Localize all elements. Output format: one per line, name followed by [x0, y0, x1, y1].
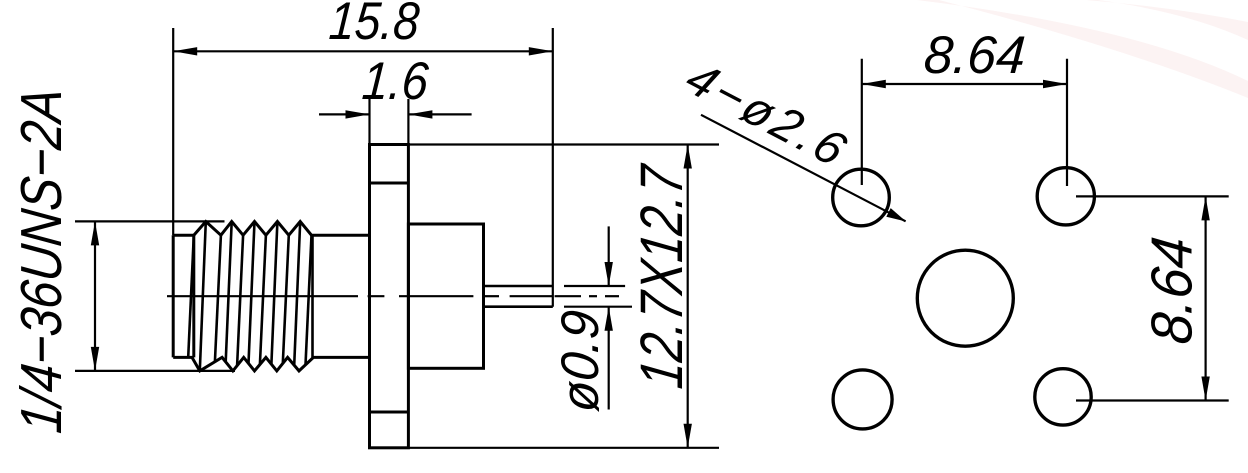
hole spacing horizontal dimension line [862, 83, 1067, 85]
svg-text:1.6: 1.6 [360, 52, 431, 111]
hole spacing horizontal right arrowhead [1043, 80, 1067, 88]
svg-text:15.8: 15.8 [327, 0, 422, 51]
hole spacing vertical bottom arrowhead [1201, 377, 1209, 401]
hole callout leader line [701, 115, 906, 222]
flange square bottom arrowhead [684, 424, 692, 448]
flange corner chamfer line top [370, 182, 409, 185]
flange square top arrowhead [684, 145, 692, 169]
watermark band lower [917, 0, 1248, 98]
flange side view plate [370, 145, 409, 448]
pin diameter dimension lines [608, 226, 610, 409]
center bore circle [917, 250, 1013, 346]
thread dimension top arrowhead [91, 221, 99, 245]
svg-text:ø0.9: ø0.9 [551, 308, 610, 414]
svg-text:8.64: 8.64 [1140, 234, 1205, 347]
dimension 1.6 dimension lines [319, 113, 472, 115]
thread crest top zigzag [194, 222, 370, 236]
hole spacing vertical dimension line [1204, 196, 1206, 400]
dimension 15.8 extension lines [173, 28, 553, 307]
hole spacing vertical extension lines [1076, 196, 1229, 400]
dimension 15.8 dimension line [173, 50, 553, 52]
pin diameter upper arrowhead [605, 262, 613, 286]
flange square dimension line [687, 145, 689, 448]
pin diameter extension lines [564, 286, 632, 307]
thread runout edge [311, 235, 314, 357]
rear insulator body [408, 224, 483, 368]
mounting hole bottom-left [833, 370, 892, 429]
svg-text:8.64: 8.64 [922, 26, 1027, 85]
center line of side view [167, 295, 619, 297]
hole callout arrowhead [886, 208, 906, 221]
pin diameter lower arrowhead [605, 307, 613, 331]
hole spacing vertical top arrowhead [1201, 196, 1209, 220]
hole spacing horizontal extension lines [862, 59, 1067, 186]
flange corner chamfer line bottom [370, 411, 409, 414]
coupling end face [173, 235, 194, 357]
thread dimension extension lines [75, 221, 235, 371]
svg-text:12.7X12.7: 12.7X12.7 [627, 160, 695, 391]
thread dimension line [94, 221, 96, 371]
thread crest bottom zigzag [192, 357, 370, 371]
thread dimension bottom arrowhead [91, 347, 99, 371]
dimension 1.6 right arrowhead [408, 110, 432, 118]
mounting hole top-right [1037, 168, 1094, 225]
watermark band upper [1086, 0, 1248, 40]
dimension 1.6 left arrowhead [346, 110, 370, 118]
dimension 1.6 extension lines [370, 99, 409, 145]
dimension 15.8 right arrowhead [529, 47, 553, 55]
hole spacing horizontal left arrowhead [862, 80, 886, 88]
center pin contact [484, 286, 553, 307]
mounting hole top-left [833, 169, 890, 226]
mounting hole bottom-right [1035, 369, 1091, 425]
flange square dimension extension lines [408, 145, 719, 448]
dimension 15.8 left arrowhead [173, 47, 197, 55]
svg-text:4−ø2.6: 4−ø2.6 [676, 53, 855, 177]
thread flank helix lines [188, 222, 311, 371]
svg-text:1/4−36UNS−2A: 1/4−36UNS−2A [9, 85, 74, 436]
